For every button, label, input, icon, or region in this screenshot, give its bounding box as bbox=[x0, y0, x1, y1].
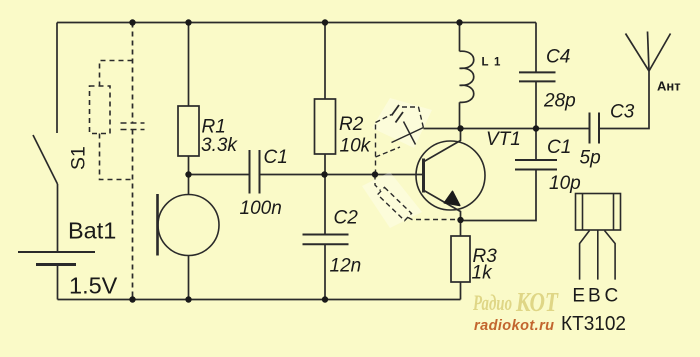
node bottom rail / C2 bbox=[322, 296, 328, 302]
svg-text:5p: 5p bbox=[580, 148, 601, 169]
microphone bbox=[158, 175, 220, 300]
resistor R2 bbox=[315, 99, 336, 154]
node top rail / R1 bbox=[185, 19, 191, 25]
wire left rail middle bbox=[57, 184, 59, 252]
wire C2 bottom bbox=[324, 244, 326, 299]
wire R2 bottom bbox=[324, 154, 326, 175]
switch S1 bbox=[33, 135, 58, 184]
svg-text:C: C bbox=[605, 285, 619, 306]
svg-text:E: E bbox=[572, 285, 585, 306]
node top rail / dashed branch bbox=[129, 19, 135, 25]
svg-text:Bat1: Bat1 bbox=[68, 218, 116, 244]
wire bottom rail bbox=[58, 299, 461, 301]
svg-text:Ант: Ант bbox=[657, 79, 681, 94]
white halo behind varicap bbox=[372, 98, 432, 148]
wire left rail upper bbox=[56, 23, 58, 134]
svg-text:C2: C2 bbox=[334, 208, 359, 229]
svg-text:1.5V: 1.5V bbox=[69, 273, 118, 299]
dashed resistor branch bbox=[90, 61, 133, 180]
svg-text:КТ3102: КТ3102 bbox=[561, 312, 626, 335]
svg-text:КОТ: КОТ bbox=[515, 287, 559, 317]
svg-text:10p: 10p bbox=[549, 173, 581, 194]
wire emitter to R3 bbox=[460, 220, 462, 236]
svg-text:28p: 28p bbox=[543, 91, 576, 112]
dashed resistor (base-emitter option) bbox=[375, 175, 461, 221]
capacitor C1 100n bbox=[250, 150, 260, 194]
node bottom rail / mic bbox=[185, 296, 191, 302]
node collector / C4-C1 bbox=[533, 125, 539, 131]
svg-text:1k: 1k bbox=[472, 263, 494, 284]
svg-text:100n: 100n bbox=[240, 198, 282, 219]
svg-text:C1: C1 bbox=[264, 147, 288, 168]
wire R1 bottom bbox=[188, 156, 190, 175]
transistor VT1 bbox=[416, 129, 485, 221]
svg-text:VT1: VT1 bbox=[486, 129, 521, 150]
svg-text:S1: S1 bbox=[68, 146, 90, 170]
wire R3 bottom bbox=[460, 282, 462, 300]
wire R1 top bbox=[188, 23, 190, 107]
antenna bbox=[626, 32, 671, 72]
node base / R1-mic bbox=[185, 171, 191, 177]
svg-text:C4: C4 bbox=[546, 47, 570, 68]
varicap (dashed option) bbox=[376, 105, 424, 175]
dashed feed line (optional) bbox=[132, 23, 134, 300]
node base / R2-C2 bbox=[321, 171, 327, 177]
wire base coupling right bbox=[260, 174, 424, 176]
battery Bat1 bbox=[18, 252, 95, 265]
wire base coupling left bbox=[189, 174, 250, 176]
svg-text:Радио: Радио bbox=[472, 290, 512, 315]
wire top rail bbox=[57, 22, 536, 24]
resistor R1 bbox=[178, 106, 199, 156]
svg-text:C3: C3 bbox=[610, 102, 635, 123]
node base / varicap bbox=[372, 171, 378, 177]
node collector bbox=[457, 125, 463, 131]
node dots bbox=[129, 19, 539, 302]
wire C1-10p bottom to emitter bbox=[461, 170, 537, 221]
capacitor C1 10p bbox=[515, 160, 557, 170]
capacitor C4 28p bbox=[519, 72, 556, 81]
wire C4 bottom bbox=[535, 81, 537, 128]
wire C1-10p top bbox=[535, 129, 537, 161]
svg-text:R2: R2 bbox=[339, 114, 364, 135]
dashed capacitor bbox=[121, 123, 145, 130]
wire collector rail bbox=[424, 128, 590, 130]
node top rail / R2 bbox=[322, 19, 328, 25]
node emitter bbox=[457, 217, 463, 223]
svg-text:L1: L1 bbox=[482, 57, 506, 69]
svg-text:3.3k: 3.3k bbox=[201, 135, 238, 156]
node top rail / L1 bbox=[456, 19, 462, 25]
svg-text:radiokot.ru: radiokot.ru bbox=[474, 318, 554, 334]
wire R2 top bbox=[324, 23, 326, 100]
resistor R3 bbox=[451, 236, 470, 282]
transistor package KT3102 bbox=[576, 194, 621, 280]
wire left rail lower bbox=[57, 265, 59, 300]
svg-text:C1: C1 bbox=[547, 137, 571, 158]
capacitor C3 5p bbox=[590, 113, 600, 144]
svg-text:12n: 12n bbox=[330, 256, 362, 277]
wire antenna feed bbox=[599, 71, 649, 129]
svg-text:10k: 10k bbox=[340, 136, 372, 157]
wire C4 top bbox=[535, 23, 537, 73]
white halo behind dashed resistor bbox=[362, 172, 422, 228]
node bottom rail / dashed bbox=[129, 296, 135, 302]
capacitor C2 bbox=[303, 235, 349, 245]
svg-text:B: B bbox=[588, 285, 601, 306]
inductor L1 bbox=[460, 23, 474, 129]
wire C2 top bbox=[324, 175, 326, 236]
